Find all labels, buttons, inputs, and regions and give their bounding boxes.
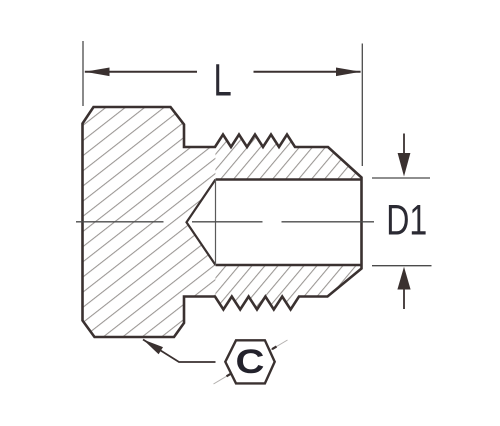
L dimension line left segment (85, 71, 197, 73)
C leader arrowhead (143, 340, 163, 355)
L dimension line right segment (254, 71, 361, 73)
svg-text:C: C (236, 342, 265, 381)
L dimension left extension line (82, 41, 84, 106)
svg-text:D1: D1 (386, 197, 427, 245)
L left arrowhead (85, 68, 110, 77)
C witness tick top-right (272, 347, 277, 350)
internal bore cavity outline (216, 180, 362, 266)
L dimension right extension line (361, 44, 363, 167)
C across-flats witness line (214, 340, 288, 384)
D1 bottom arrow shaft (403, 289, 405, 310)
centerline dash C (282, 221, 375, 223)
centerline dash B (192, 221, 263, 223)
C witness tick bottom-left (227, 373, 232, 376)
D1 bottom extension line (372, 265, 432, 267)
bore conical drill point (187, 180, 216, 266)
fitting outer profile outline (hex head, threads, end chamfers) (83, 107, 362, 337)
bore left edge thin line (215, 180, 217, 266)
L right arrowhead (336, 68, 361, 77)
C hexagon symbol (225, 340, 274, 383)
D1 bottom arrowhead (397, 267, 410, 290)
D1 top arrow shaft (403, 134, 405, 155)
plug fitting cross-section hatched body (83, 107, 362, 337)
D1 top arrowhead (398, 153, 411, 177)
D1 top extension line (372, 177, 430, 179)
svg-text:L: L (214, 55, 232, 105)
centerline dash A (76, 221, 164, 223)
C leader line (143, 340, 216, 363)
threaded shank dense hatch overlay (215, 120, 365, 315)
